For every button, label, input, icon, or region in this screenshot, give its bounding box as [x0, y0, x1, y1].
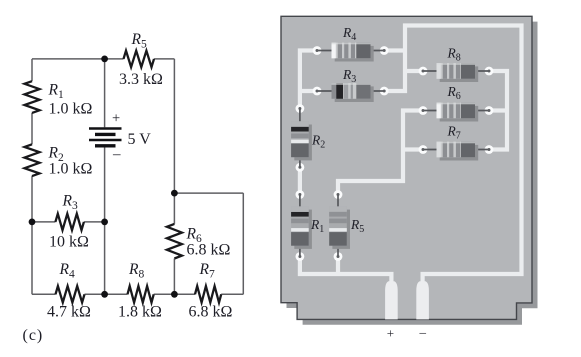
- wire bottom rail segment 1: [32, 293, 56, 295]
- svg-text:6.8 kΩ: 6.8 kΩ: [189, 304, 233, 321]
- resistor R6 body: [437, 103, 479, 122]
- resistor R1 leads: [299, 195, 301, 257]
- svg-text:R7: R7: [199, 261, 215, 281]
- resistor R5 pads: [334, 190, 343, 199]
- node R3 left junction: [29, 219, 36, 226]
- svg-text:R4: R4: [59, 261, 75, 281]
- svg-text:(c): (c): [23, 327, 44, 344]
- wire top horizontal right of R5: [154, 58, 174, 60]
- resistor R5 body: [329, 206, 350, 249]
- resistor R8: [128, 286, 154, 302]
- svg-text:R3: R3: [62, 193, 78, 213]
- wire horizontal node Y to right rail: [174, 192, 243, 194]
- wire R3 row left stub: [32, 221, 55, 223]
- resistor R6: [167, 224, 182, 259]
- resistor R7: [195, 286, 221, 302]
- svg-text:5 V: 5 V: [128, 131, 152, 148]
- resistor R3: [55, 214, 84, 230]
- resistor R8 body: [437, 63, 479, 82]
- resistor R5: [124, 51, 155, 67]
- resistor R7 pad centers: [422, 148, 425, 151]
- resistor R4 pads: [313, 46, 322, 55]
- trace net F: R1.bottom / R5.bottom / plus pad: [300, 257, 392, 285]
- wire left vertical between R2 and R3 node: [31, 176, 33, 294]
- wire right branch vertical x=174: [173, 59, 175, 224]
- PCB board: [281, 16, 532, 319]
- resistor R3 body: [332, 83, 374, 102]
- svg-text:R5: R5: [131, 31, 147, 51]
- resistor R3 leads: [317, 90, 384, 92]
- resistor R1 pads: [296, 190, 305, 199]
- svg-text:1.0 kΩ: 1.0 kΩ: [49, 101, 93, 118]
- trace net E: R2.bottom / R1.top: [298, 167, 302, 194]
- resistor R2 body: [291, 121, 312, 160]
- resistor R4 leads: [317, 50, 384, 52]
- trace net B: R4.right / R3.right / R8.left / top+right border to minus pad: [384, 26, 521, 285]
- node top junction (battery + rail): [101, 56, 108, 63]
- minus terminal pad: [416, 281, 429, 319]
- wire bottom rail segment 2: [85, 293, 128, 295]
- resistor R2 pads: [296, 104, 305, 113]
- resistor R2 pad centers: [298, 107, 301, 110]
- resistor R7 pads: [419, 145, 428, 154]
- wire R3 row right stub: [84, 221, 105, 223]
- svg-text:R8: R8: [128, 261, 144, 281]
- resistor R4: [56, 286, 85, 302]
- resistor R3 pads: [313, 87, 322, 96]
- wire middle vertical battery top: [104, 59, 106, 127]
- resistor R8 pads: [419, 67, 428, 76]
- node R3 right junction: [101, 219, 108, 226]
- resistor R3 pad centers: [316, 90, 319, 93]
- resistor R1: [25, 81, 40, 113]
- wire right branch vertical below R6: [173, 259, 175, 295]
- PCB board shadow: [287, 22, 538, 325]
- resistor R7 body: [437, 142, 479, 161]
- svg-text:3.3 kΩ: 3.3 kΩ: [119, 71, 163, 88]
- wire bottom rail segment 3: [154, 293, 195, 295]
- resistor R6 pads: [419, 106, 428, 115]
- plus terminal pad: [385, 281, 398, 319]
- resistor R1 pad centers: [298, 193, 301, 196]
- resistor R8 leads: [423, 70, 489, 72]
- resistor R2: [25, 144, 40, 176]
- svg-text:10 kΩ: 10 kΩ: [49, 234, 89, 251]
- wire top horizontal left of R5: [32, 58, 124, 60]
- resistor R4 pad centers: [316, 49, 319, 52]
- resistor R7 leads: [423, 149, 489, 151]
- svg-text:4.7 kΩ: 4.7 kΩ: [47, 304, 91, 321]
- resistor R1 body: [291, 206, 312, 249]
- svg-text:1.8 kΩ: 1.8 kΩ: [118, 304, 162, 321]
- svg-text:1.0 kΩ: 1.0 kΩ: [49, 161, 93, 178]
- wire bottom rail segment 4: [221, 293, 243, 295]
- node bottom junction battery minus: [101, 291, 108, 298]
- svg-text:–: –: [419, 325, 427, 340]
- wire middle vertical battery bottom: [104, 147, 106, 294]
- svg-text:+: +: [387, 326, 394, 341]
- battery 5V: [89, 129, 122, 146]
- trace net C: R8.right / R6.right / R7.right: [489, 71, 507, 150]
- wire left vertical top segment: [31, 59, 33, 81]
- resistor R5 pad centers: [337, 193, 340, 196]
- svg-text:+: +: [112, 110, 120, 126]
- resistor R8 pad centers: [422, 70, 425, 73]
- svg-text:–: –: [112, 147, 121, 163]
- resistor R6 leads: [423, 110, 489, 112]
- resistor R5 leads: [337, 195, 339, 257]
- svg-text:R1: R1: [48, 82, 64, 102]
- node X junction (R8/R6/R7): [171, 291, 178, 298]
- trace net A: R4.left / R3.left / R2.top: [300, 51, 317, 109]
- svg-text:6.8 kΩ: 6.8 kΩ: [187, 242, 231, 259]
- resistor R2 leads: [299, 109, 301, 168]
- node Y junction (R5/R6/R7): [171, 190, 178, 197]
- resistor R4 body: [332, 43, 374, 62]
- wire right rail vertical: [242, 193, 244, 294]
- trace net D: R5.top / R6.left / R7.left: [338, 111, 423, 195]
- wire left vertical between R1 and R2: [31, 113, 33, 144]
- resistor R6 pad centers: [422, 109, 425, 112]
